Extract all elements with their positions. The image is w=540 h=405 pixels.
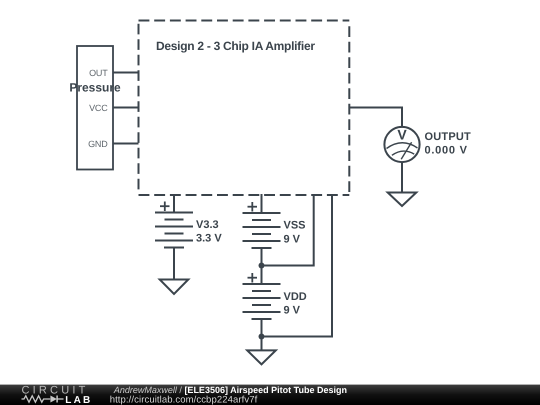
junction (VSS minus / VDD plus) [259, 263, 265, 269]
svg-text:9 V: 9 V [284, 233, 301, 245]
CircuitLab logo: CIRCUIT [22, 384, 89, 396]
svg-text:http://circuitlab.com/ccbp224a: http://circuitlab.com/ccbp224arfv7f [110, 395, 258, 405]
svg-text:VCC: VCC [89, 103, 108, 113]
pin label VCC [89, 103, 108, 113]
value label: 3.3 V [196, 233, 222, 245]
svg-text:9 V: 9 V [284, 304, 301, 316]
voltmeter M1 (OUTPUT) [384, 127, 419, 163]
pin label OUT [89, 68, 108, 78]
junction (VDD minus / ground) [259, 334, 265, 340]
wire: VDD junction to riser (VDD net) [262, 194, 333, 337]
ground (V3.3) [160, 280, 189, 295]
footer bar [0, 385, 540, 405]
wire: battery VDD minus to junction [261, 319, 263, 337]
label: Design 2 - 3 Chip IA Amplifier [156, 39, 315, 53]
svg-text:V3.3: V3.3 [196, 219, 219, 231]
ground (output) [388, 193, 417, 207]
svg-text:V: V [397, 127, 407, 143]
module box: Design 2 - 3 Chip IA Amplifier (dashed boundary) [139, 21, 350, 196]
svg-text:Design 2 - 3 Chip IA Amplifier: Design 2 - 3 Chip IA Amplifier [156, 39, 315, 53]
label: VDD [284, 291, 307, 303]
wire: pressure GND to module [113, 143, 139, 145]
pin label GND [88, 139, 108, 149]
svg-text:OUTPUT: OUTPUT [425, 131, 472, 143]
wire: battery V3.3 minus to ground [173, 248, 175, 280]
wire: voltmeter to ground [401, 162, 403, 192]
footer text line 2 [110, 395, 258, 405]
label: V3.3 [196, 219, 219, 231]
CircuitLab logo: LAB [65, 395, 92, 405]
wire: junction to battery VDD plus [261, 266, 263, 285]
wire: module to battery V3.3 plus [173, 194, 175, 213]
svg-text:AndrewMaxwell / [ELE3506] Airs: AndrewMaxwell / [ELE3506] Airspeed Pitot… [113, 385, 347, 395]
wire: module to battery VSS plus [261, 194, 263, 213]
svg-text:VDD: VDD [284, 291, 307, 303]
wire: pressure VCC to module [113, 107, 139, 109]
svg-text:3.3 V: 3.3 V [196, 233, 222, 245]
CircuitLab logo: resistor+diode squiggle [22, 396, 64, 403]
battery VDD [243, 273, 281, 319]
wire: battery VSS minus to junction [261, 248, 263, 266]
svg-text:0.000 V: 0.000 V [425, 145, 468, 157]
wire: pressure OUT to module [113, 72, 139, 74]
wire: module output to voltmeter [349, 108, 402, 128]
value label: 9 V (VSS) [284, 233, 301, 245]
ground (VDD) [247, 350, 276, 364]
svg-text:LAB: LAB [65, 395, 92, 405]
value label: 9 V (VDD) [284, 304, 301, 316]
svg-text:GND: GND [88, 139, 108, 149]
svg-text:Pressure: Pressure [69, 81, 121, 95]
footer text line 1 [113, 385, 347, 395]
pressure sensor body (Pressure) [77, 46, 113, 170]
label: VSS [284, 220, 306, 232]
label: OUTPUT [425, 131, 472, 143]
svg-text:VSS: VSS [284, 220, 306, 232]
label: Pressure [69, 81, 121, 95]
svg-text:OUT: OUT [89, 68, 108, 78]
battery V3.3 [155, 202, 193, 248]
wire: junction to riser (VSS net) [262, 194, 314, 266]
battery VSS [243, 202, 281, 248]
value label: 0.000 V [425, 145, 468, 157]
wire: junction to ground (VDD) [261, 337, 263, 351]
